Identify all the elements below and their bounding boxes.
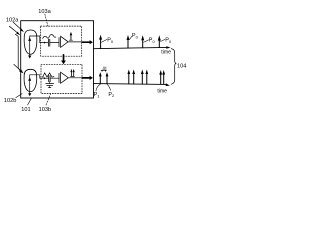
svg-text:103b: 103b — [39, 107, 51, 113]
ground capacitor under C2 — [49, 82, 51, 84]
pulse pair #4 — [160, 74, 162, 84]
svg-text:104: 104 — [177, 64, 186, 70]
leader 103b — [46, 94, 51, 105]
svg-text:101: 101 — [21, 107, 30, 113]
PMT 102a body — [24, 30, 37, 54]
ray arrow A into 102a — [13, 22, 22, 30]
svg-text:P1: P1 — [94, 92, 100, 98]
leader 103a — [45, 14, 48, 26]
dashed box 103a — [41, 26, 82, 56]
pulse arrow P0 #2 — [127, 39, 129, 48]
pulse pair P1 P2 — [99, 76, 101, 84]
capacitor C2 — [48, 76, 50, 82]
pulse arrow P0 #3 — [142, 40, 144, 48]
svg-text:P0: P0 — [107, 38, 114, 44]
svg-text:102b: 102b — [4, 98, 16, 104]
PMT 102a inner dynode arrow — [29, 36, 31, 55]
wire A2 output — [68, 77, 81, 79]
double pulse icon at A2 output — [71, 75, 75, 77]
double pulse waveform symbol in 103b — [42, 76, 43, 77]
input wire arrowhead 103a — [44, 42, 46, 44]
svg-text:102a: 102a — [6, 18, 19, 24]
svg-text:time: time — [157, 89, 167, 95]
leader 102b — [16, 94, 22, 98]
ground symbol — [49, 86, 51, 88]
single pulse icon at A1 output — [69, 39, 72, 41]
amp A1 input bar — [58, 38, 60, 47]
wire PMT 102b to 103b — [30, 75, 49, 78]
pulse pair #3 — [141, 73, 143, 84]
amp A2 triangle — [61, 72, 69, 83]
pulse arrow P0 #4 — [158, 40, 160, 48]
pulse arrow P0 #1 — [100, 39, 102, 49]
svg-text:time: time — [161, 50, 171, 56]
bottom time axis — [94, 83, 167, 86]
PMT 102b body — [24, 69, 37, 91]
top time axis — [94, 47, 167, 48]
svg-text:103a: 103a — [38, 9, 51, 15]
amp A1 triangle — [61, 36, 69, 47]
ray arrow C into 102b (bent) — [15, 34, 21, 71]
outer box 101 — [21, 21, 94, 98]
svg-text:P0: P0 — [165, 38, 172, 44]
dashed box 103b — [41, 64, 82, 93]
leader 101 — [28, 98, 32, 105]
wire PMT 102a to 103a — [30, 36, 48, 43]
thick arrow 103b to box edge — [82, 77, 90, 79]
capacitor C1 — [47, 39, 49, 46]
leader P1 — [96, 84, 100, 91]
svg-text:P0: P0 — [132, 33, 139, 39]
wire A1 output — [68, 41, 81, 43]
input wire arrowhead 103b — [44, 77, 46, 79]
ray arrow B into 102a — [9, 26, 18, 33]
thick arrow 103a to box edge — [82, 41, 90, 43]
leader P2 — [107, 84, 111, 90]
svg-text:P2: P2 — [108, 92, 114, 98]
wire C2 to amp A2 — [50, 77, 58, 79]
wire C1 to amp A1 — [50, 42, 59, 44]
svg-text:P0: P0 — [149, 38, 156, 44]
ray arrow D into 102b — [14, 64, 22, 71]
pulse pair #2 — [128, 73, 130, 84]
pulse waveform symbol in 103a — [43, 34, 56, 38]
PMT 102b inner dynode arrow — [29, 75, 31, 93]
PMT 102a anode down arrow — [28, 56, 31, 59]
PMT 102b anode down arrow — [28, 93, 31, 96]
delta-t double arrow — [102, 70, 106, 72]
brace 104 — [171, 49, 176, 85]
amp A2 input bar — [58, 73, 60, 82]
thick arrow 103a down to 103b — [63, 55, 65, 61]
